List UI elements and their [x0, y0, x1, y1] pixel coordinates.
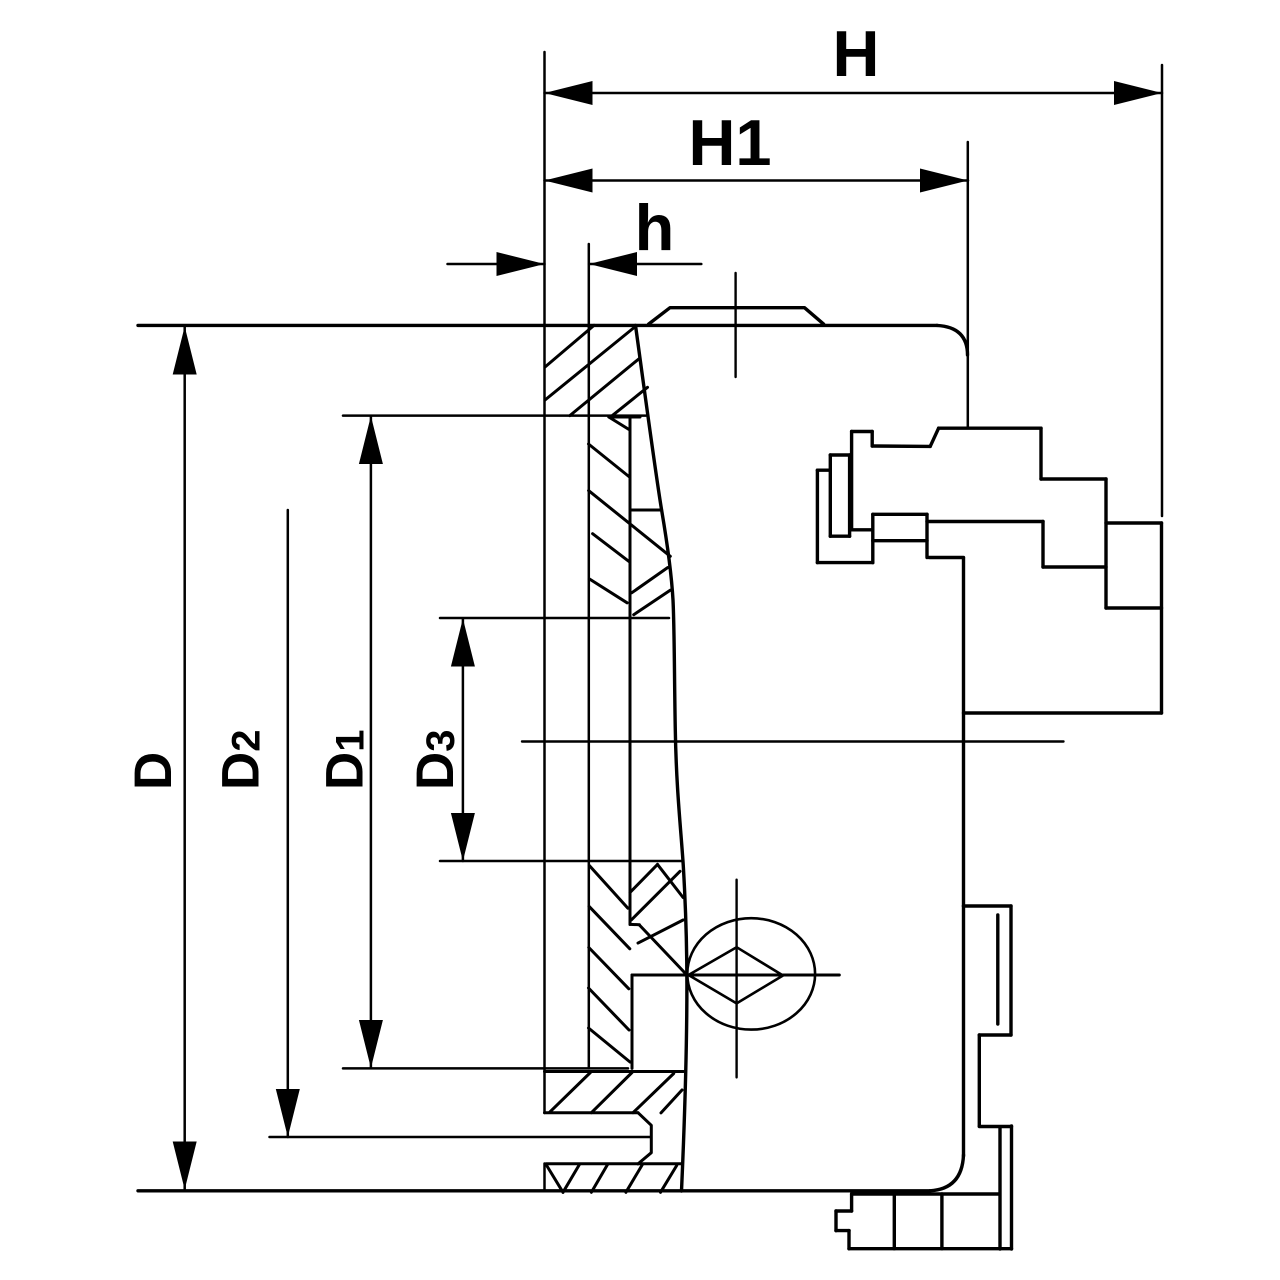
svg-text:h: h	[635, 191, 675, 264]
svg-text:D: D	[124, 752, 183, 790]
svg-text:H: H	[833, 17, 880, 90]
svg-text:H1: H1	[688, 106, 771, 179]
